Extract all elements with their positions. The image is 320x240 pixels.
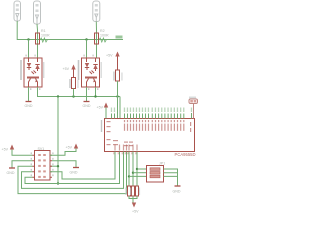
wire A1 to jumper pin2 <box>133 172 147 174</box>
resistor R4 <box>113 70 122 81</box>
svg-text:JP1: JP1 <box>159 162 165 166</box>
wire opto1 collector to ground <box>28 87 30 101</box>
svg-text:GND: GND <box>25 104 33 108</box>
ground GND4 <box>70 168 80 175</box>
ground GND2 <box>83 102 91 109</box>
junction dot rail-R4 <box>116 95 118 97</box>
resistor R5 <box>126 186 131 196</box>
wire X2 through R1 to opto1 cathode <box>36 24 39 58</box>
wire rail drop to SV1/nest <box>57 97 59 184</box>
wire A0 to jumper pin3 <box>129 175 147 177</box>
svg-text:+5V: +5V <box>66 146 73 150</box>
wire X3 through R2 to opto2 cathode <box>95 22 97 59</box>
resistor R2 <box>95 29 109 44</box>
junction dot A0-JP <box>128 175 130 177</box>
resistor R7 <box>136 186 141 196</box>
junction dot node B <box>85 38 87 40</box>
resistor R1 <box>36 29 50 44</box>
svg-text:+5V: +5V <box>97 106 104 110</box>
IC1 PCA9555D body <box>101 119 196 157</box>
svg-text:100R: 100R <box>100 34 109 38</box>
junction dot rail-opto2 <box>94 95 96 97</box>
connector X3 <box>93 1 100 22</box>
wire nest loop 2 (SV1 left pin5 to IC) <box>25 152 120 184</box>
wire SV1 right pin2 to ground GND4 <box>52 161 76 167</box>
wire opto2 emitter to rail <box>95 87 97 97</box>
resistor R3 <box>69 78 78 89</box>
optocoupler OK2 <box>78 55 102 90</box>
+5V supply P6 (bottom, arrow down) <box>132 203 139 214</box>
wire R3 to rail <box>73 89 75 97</box>
pin header SV1 <box>31 147 54 180</box>
junction dot node A <box>27 38 29 40</box>
IC1 internal pin-name marks <box>107 120 192 154</box>
svg-text:100R: 100R <box>41 34 50 38</box>
wire A2 to jumper pin1 <box>137 168 147 170</box>
ground GND3 <box>7 168 16 175</box>
resistor R6 <box>130 186 134 196</box>
+5V supply P5 (right of SV1) <box>50 144 78 156</box>
wire jumper pins to ground <box>164 169 178 186</box>
junction dot A1-JP <box>132 172 134 174</box>
wire rail end down to IC <box>119 97 121 119</box>
wire resistors to +5V rail <box>129 196 137 203</box>
wire opto1 emitter to rail <box>38 87 121 97</box>
svg-text:PCA9555D: PCA9555D <box>175 152 196 157</box>
svg-text:R1: R1 <box>41 29 46 33</box>
+5V supply P3 (IC VDD) <box>97 103 109 119</box>
wire nest loop 1 (SV1 right pin4 to IC) <box>50 152 115 180</box>
svg-text:SV1: SV1 <box>38 147 45 151</box>
wire X1 to input net <box>17 21 123 40</box>
svg-text:GND: GND <box>7 171 15 175</box>
solder jumper SJ1 (top right) <box>189 97 198 119</box>
svg-text:+5V: +5V <box>63 67 70 71</box>
net label at wire end <box>116 36 123 39</box>
wire R4 down through rail to IC <box>117 81 119 119</box>
wire node B to opto2 anode <box>86 40 88 59</box>
IC1 top pin stubs with net labels <box>111 108 192 119</box>
svg-text:+5V: +5V <box>2 148 9 152</box>
wire IC address pin A2 <box>136 152 138 187</box>
+5V supply P1 <box>63 65 76 78</box>
junction dot rail-R3 <box>72 95 74 97</box>
svg-text:GND: GND <box>70 171 78 175</box>
wire nest loop 4 (SV1 left pin3 to IC) <box>18 152 127 194</box>
junction dot drop-pin3 <box>57 165 59 167</box>
connector X1 <box>14 1 21 21</box>
wire nest loop 3 (SV1 left pin4 to IC) <box>22 152 124 189</box>
svg-text:GND: GND <box>83 104 91 108</box>
junction dot rail-drop <box>57 95 59 97</box>
wire SV1 left pin2 to ground <box>12 161 33 168</box>
wire IC address pin A1 <box>132 152 134 187</box>
ground GND5 <box>173 186 181 194</box>
connector X2 <box>34 1 41 24</box>
svg-text:+5V: +5V <box>106 54 113 58</box>
svg-text:R2: R2 <box>100 29 105 33</box>
ground GND1 <box>25 102 33 109</box>
junction dot drop-nest <box>57 182 59 184</box>
wire opto2 collector to ground <box>86 87 88 101</box>
wire IC address pin A0 <box>128 152 130 187</box>
svg-text:GND: GND <box>173 190 181 194</box>
+5V supply P2 <box>106 52 120 71</box>
jumper block JP1 <box>147 162 166 183</box>
junction dot A2-JP <box>136 168 138 170</box>
optocoupler OK1 <box>20 55 44 90</box>
wire node A to opto1 anode <box>28 40 30 59</box>
wire SV1 right pin3 to drop <box>50 165 58 167</box>
svg-text:+5V: +5V <box>132 210 139 214</box>
+5V supply P4 (SV1 left) <box>2 145 33 156</box>
